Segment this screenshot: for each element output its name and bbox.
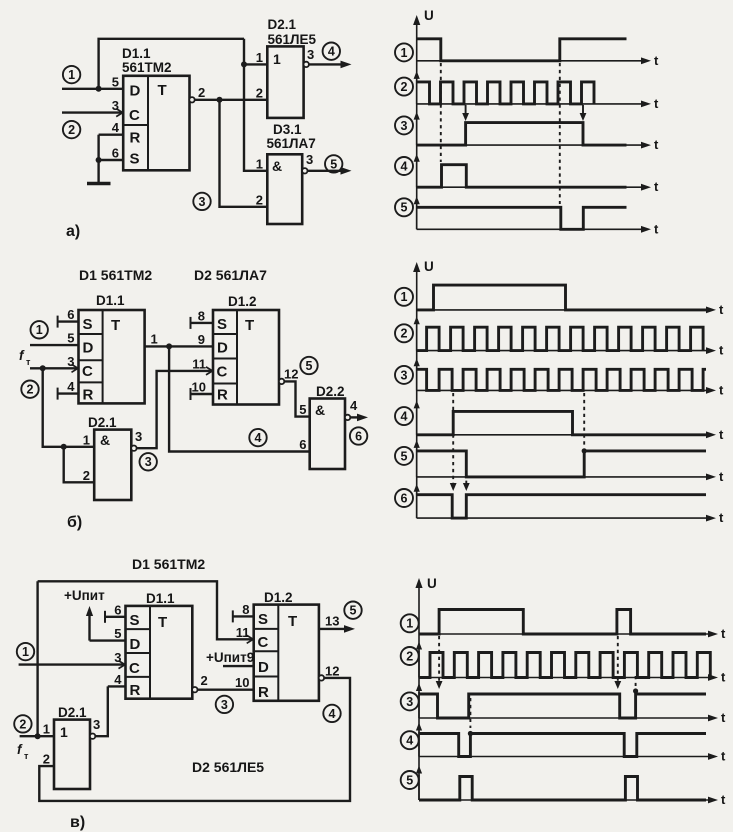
svg-text:561ЛЕ5: 561ЛЕ5	[268, 32, 317, 47]
timing a: mini axis arrow trace 5	[414, 196, 420, 229]
svg-text:t: t	[719, 302, 724, 317]
node 5 label (section v)	[344, 602, 361, 619]
svg-text:t: t	[721, 749, 726, 764]
svg-text:T: T	[158, 614, 167, 631]
svg-text:1: 1	[401, 46, 408, 60]
wire: R pin 4 stub with tick (section b)	[58, 388, 79, 400]
timing v: mini axis arrow trace 3	[416, 683, 422, 718]
timing b: dotted marker 2	[463, 453, 470, 491]
node 2 label (section v)	[14, 715, 31, 732]
svg-text:D1.1: D1.1	[96, 293, 125, 308]
svg-text:S: S	[130, 151, 140, 168]
timing b: waveform trace 5	[417, 451, 706, 477]
timing v: node 5 label	[401, 771, 419, 789]
svg-text:t: t	[721, 626, 726, 641]
svg-text:&: &	[315, 402, 325, 418]
svg-text:U: U	[424, 8, 434, 23]
timing a: t axis trace 4	[417, 179, 659, 194]
timing v: node 1 label	[401, 614, 419, 632]
pin 8 label (b D1.2)	[198, 308, 205, 323]
svg-text:U: U	[427, 576, 437, 591]
node 4 label (section b)	[249, 429, 266, 446]
svg-text:6: 6	[67, 307, 74, 322]
svg-text:1: 1	[406, 617, 413, 631]
label D2 561LE5 (section v)	[192, 759, 264, 775]
timing v: waveform trace 1 (input)	[419, 610, 706, 635]
svg-text:4: 4	[329, 707, 336, 721]
timing v: mini axis arrow trace 4	[416, 723, 422, 757]
pin 5 label (v D1.1)	[114, 626, 121, 641]
svg-text:4: 4	[406, 734, 413, 748]
node 2 label (section a)	[63, 121, 80, 138]
wire: net 1 top rail from D-input junction to gate inputs	[99, 39, 244, 89]
header label D1 561TM2 (section b)	[79, 267, 152, 283]
svg-text:R: R	[130, 130, 141, 147]
wire: D2.1 output up to D1.2 C pin 11 (section b)	[137, 367, 214, 448]
junction: top rail to D2.1 pin 1	[241, 61, 247, 67]
timing a: trigger arrow 2 onto trace 3	[580, 105, 587, 121]
svg-text:2: 2	[19, 717, 26, 731]
svg-text:t: t	[719, 343, 724, 358]
supply label +Upit (section v)	[64, 588, 105, 603]
timing b: mini axis arrow trace 6	[414, 484, 420, 518]
node 4 label (section v)	[323, 705, 340, 722]
svg-text:8: 8	[198, 308, 205, 323]
svg-text:5: 5	[350, 604, 357, 618]
timing a: waveform trace 5 (gate D3.1 out)	[417, 207, 627, 229]
node 1 label (section a)	[63, 66, 80, 83]
timing a: t axis trace 2	[417, 96, 659, 111]
svg-text:в): в)	[70, 814, 85, 831]
pin 1 label (b D1.1 output)	[151, 332, 158, 347]
pin 12 label (section v)	[325, 663, 339, 678]
svg-text:3: 3	[145, 455, 152, 469]
reference label D2.1 (section v)	[58, 705, 87, 720]
svg-text:D1.1: D1.1	[122, 46, 151, 61]
node 3 label (section v)	[216, 696, 233, 713]
svg-text:3: 3	[406, 695, 413, 709]
timing b: mini axis arrow trace 4	[414, 400, 420, 434]
svg-text:1: 1	[36, 323, 43, 337]
value label 561LA7	[267, 136, 316, 151]
ground	[87, 182, 111, 186]
svg-text:3: 3	[401, 119, 408, 133]
inversion circle: D3.1 output pin 3	[302, 168, 307, 173]
svg-text:4: 4	[401, 159, 408, 173]
svg-text:4: 4	[67, 379, 75, 394]
flip-flop D1.2 (section v) box	[254, 605, 319, 701]
svg-text:2: 2	[256, 85, 263, 100]
timing a: dashed edge marker 1	[440, 63, 442, 162]
svg-text:t: t	[654, 53, 659, 68]
pin 3 label (D3.1)	[306, 152, 313, 167]
svg-text:2: 2	[201, 673, 208, 688]
node 6 label (section b)	[350, 427, 367, 444]
svg-text:D: D	[130, 636, 141, 653]
svg-text:t: t	[719, 469, 724, 484]
wire: S pin 8 stub with tick (v D1.2)	[233, 610, 254, 622]
wire: S pin 6 stub with tick (section b)	[58, 316, 79, 328]
svg-text:5: 5	[299, 402, 306, 417]
timing b: waveform trace 3 (inverted clock)	[417, 369, 706, 390]
wire: S pin 6 stub	[99, 159, 124, 161]
wire: R-S tie down to ground	[97, 135, 99, 183]
svg-text:D2 561ЛЕ5: D2 561ЛЕ5	[192, 759, 264, 775]
header label D2 561LA7 (section b)	[194, 267, 267, 283]
timing v: waveform trace 4	[419, 734, 706, 757]
svg-text:C: C	[129, 660, 140, 677]
timing b: waveform trace 4	[417, 411, 706, 434]
timing a: node 1 label	[395, 43, 413, 61]
node 5 label (section a)	[325, 155, 342, 172]
pin 1 label (D3.1)	[256, 156, 263, 171]
pin 11 label (b D1.2)	[192, 356, 206, 371]
svg-text:D2.1: D2.1	[58, 705, 87, 720]
svg-text:4: 4	[112, 120, 120, 135]
supply +Upit arrow (section v)	[86, 606, 93, 641]
timing b: dotted marker 3	[583, 393, 585, 446]
timing a: dashed edge marker 2	[559, 63, 561, 204]
timing v: dotted marker 3	[469, 698, 471, 728]
pin 2 label (D2.1)	[256, 85, 263, 100]
gate D3.1 (561LA7) box	[267, 154, 302, 224]
timing a: t axis trace 1	[417, 53, 659, 68]
svg-text:5: 5	[114, 626, 121, 641]
wire: D pin 5 to supply (section v)	[90, 639, 126, 641]
pin 6 label	[112, 146, 119, 161]
svg-text:13: 13	[325, 613, 339, 628]
svg-text:1: 1	[83, 432, 90, 447]
svg-text:2: 2	[43, 752, 50, 767]
wire: vertical branch down to D3.1 pin 1	[244, 39, 267, 171]
inversion circle: D2.1 output pin 3 (section v)	[90, 734, 95, 739]
svg-text:3: 3	[306, 152, 313, 167]
pin 6 label (b D1.1)	[67, 307, 74, 322]
svg-text:C: C	[258, 634, 269, 651]
timing v: t axis trace 5	[419, 792, 726, 807]
svg-text:t: t	[719, 382, 724, 397]
svg-text:1: 1	[43, 722, 50, 737]
node 3 label (section a)	[193, 193, 210, 210]
pin 11 label (v D1.2)	[236, 625, 250, 640]
flip-flop D1.2 (section b) box	[213, 310, 279, 405]
timing a: mini axis arrow trace 3	[414, 112, 420, 146]
timing v: waveform trace 5	[419, 777, 706, 801]
svg-text:1: 1	[401, 290, 408, 304]
reference label D1.2 (section b)	[228, 294, 257, 309]
timing v: U axis	[415, 578, 422, 800]
svg-text:5: 5	[406, 773, 413, 787]
timing a: waveform trace 2 (clock)	[417, 82, 594, 104]
wire: input 1 to D pin 5 (section b)	[30, 344, 79, 346]
timing a: trigger arrow 1 onto trace 3	[462, 105, 469, 121]
timing b: node 6 label	[395, 489, 413, 507]
timing a: U axis	[413, 15, 420, 229]
inversion circle: D2.1 output (section b)	[131, 446, 136, 451]
pin 2 label (D3.1)	[256, 192, 263, 207]
timing b: t axis trace 2	[417, 343, 724, 358]
wire: input 1 to C pin 3 (section v)	[19, 661, 126, 669]
svg-text:12: 12	[325, 663, 339, 678]
pin 1 label (v D2.1)	[43, 722, 50, 737]
pin 3 label	[112, 98, 119, 113]
pin 3 label (D2.1)	[307, 47, 314, 62]
svg-text:3: 3	[221, 698, 228, 712]
timing a: node 4 label	[395, 157, 413, 175]
svg-text:D: D	[217, 340, 228, 357]
timing a: node 3 label	[395, 116, 413, 134]
label f clock input (section b)	[19, 348, 31, 367]
svg-text:t: t	[654, 179, 659, 194]
svg-text:3: 3	[67, 354, 74, 369]
svg-text:1: 1	[256, 156, 263, 171]
svg-text:t: t	[721, 792, 726, 807]
reference label D2.2 (section b)	[316, 384, 345, 399]
svg-text:R: R	[217, 387, 228, 404]
timing b: mini axis arrow trace 5	[414, 440, 420, 477]
pin 4 label (b D1.1)	[67, 379, 75, 394]
svg-text:S: S	[217, 316, 227, 333]
svg-text:1: 1	[60, 724, 68, 740]
svg-text:561ЛА7: 561ЛА7	[267, 136, 316, 151]
svg-text:t: t	[654, 96, 659, 111]
gate D2.1 (section v) box	[54, 720, 90, 789]
svg-text:2: 2	[68, 123, 75, 137]
pin 10 label (v D1.2)	[235, 675, 249, 690]
svg-text:t: t	[719, 510, 724, 525]
svg-text:T: T	[111, 317, 120, 334]
svg-text:2: 2	[401, 80, 408, 94]
reference label D2.1	[268, 17, 297, 32]
timing b: mini axis arrow trace 2	[414, 316, 420, 350]
reference label D1.1 (section v)	[146, 591, 175, 606]
wire: input 2 to C pin 3	[62, 109, 123, 117]
pin 13 label (section v)	[325, 613, 339, 628]
wire: R pin 4 from gate D2.1 output (section v)	[108, 685, 126, 687]
reference label D1.1 (section b)	[96, 293, 125, 308]
junction: f net (section b)	[40, 365, 46, 371]
junction: f net (section v)	[35, 733, 41, 739]
wire: tie to D2.1 pin 2 (section b)	[64, 447, 94, 483]
svg-text:D1.2: D1.2	[228, 294, 257, 309]
inversion circle: D1.2 output pin 12 (section v)	[319, 675, 324, 680]
svg-text:D: D	[258, 659, 269, 676]
section label v)	[70, 814, 85, 831]
svg-text:D1 561ТМ2: D1 561ТМ2	[132, 556, 205, 572]
inversion circle: D1.1 output pin 2	[189, 97, 194, 102]
value label 561TM2	[122, 60, 172, 75]
section label a)	[66, 223, 80, 240]
svg-text:10: 10	[192, 380, 206, 395]
svg-text:4: 4	[255, 431, 262, 445]
gate D2.2 (section b) box	[310, 399, 345, 470]
svg-text:D2.1: D2.1	[268, 17, 297, 32]
svg-text:1: 1	[273, 51, 281, 67]
gate D2.1 (section b) box	[94, 430, 131, 500]
svg-text:t: t	[719, 427, 724, 442]
inversion circle: D2.2 output pin 4 (section b)	[345, 415, 350, 420]
pin 3 label (b D1.1)	[67, 354, 74, 369]
svg-text:6: 6	[112, 146, 119, 161]
timing v: t axis trace 3	[419, 710, 726, 725]
wire: output net down to D3.1 pin 2	[220, 100, 268, 207]
pin 3 label (b D2.1)	[135, 429, 142, 444]
svg-text:10: 10	[235, 675, 249, 690]
svg-text:11: 11	[192, 356, 206, 371]
svg-text:D: D	[83, 340, 94, 357]
timing b: t axis trace 6	[417, 510, 724, 525]
wire: Q net down to D2.2 pin 6 (section b)	[169, 346, 310, 451]
junction: Q net (section b)	[166, 343, 172, 349]
node 4 label (section a)	[323, 43, 340, 60]
svg-text:3: 3	[93, 717, 100, 732]
svg-text:D: D	[130, 83, 141, 100]
pin 2 label (v D1.1 output)	[201, 673, 208, 688]
svg-text:т: т	[24, 751, 29, 761]
svg-text:5: 5	[401, 201, 408, 215]
wire: top rail f to D1.2 C pin 11 (section v)	[38, 581, 254, 643]
svg-text:D1 561ТМ2: D1 561ТМ2	[79, 267, 152, 283]
wire: R pin 10 stub with tick (b D1.2)	[191, 388, 214, 400]
svg-text:+Uпит9: +Uпит9	[206, 650, 254, 665]
svg-text:T: T	[158, 82, 167, 99]
reference label D3.1	[273, 122, 302, 137]
timing v: waveform trace 3	[419, 694, 706, 718]
timing a: waveform trace 3 (Q output)	[417, 123, 627, 146]
pin 4 label (b D2.2)	[350, 398, 358, 413]
svg-text:5: 5	[306, 359, 313, 373]
timing v: t axis trace 2	[419, 670, 726, 685]
svg-text:4: 4	[401, 410, 408, 424]
timing b: mini axis arrow trace 3	[414, 358, 420, 390]
svg-text:R: R	[258, 684, 269, 701]
svg-text:1: 1	[151, 332, 158, 347]
svg-text:2: 2	[83, 468, 90, 483]
wire: f input to D2.1 pin 1 (section v)	[20, 735, 54, 737]
svg-text:9: 9	[198, 332, 205, 347]
pin 3 label (v D2.1)	[93, 717, 100, 732]
timing b: node 5 label	[395, 447, 413, 465]
svg-text:S: S	[83, 316, 93, 333]
timing b: t axis trace 3	[417, 382, 724, 397]
svg-text:3: 3	[112, 98, 119, 113]
timing v: t axis trace 1	[419, 626, 726, 641]
svg-text:2: 2	[406, 649, 413, 663]
timing v: dashed edge marker 2	[614, 636, 621, 689]
reference label D1.2 (section v)	[264, 590, 293, 605]
timing b: t axis trace 4	[417, 427, 724, 442]
wire: D1.2 output pin 13 arrow (section v)	[319, 625, 355, 633]
timing v: dashed edge marker 1	[436, 636, 443, 689]
svg-text:D2.2: D2.2	[316, 384, 345, 399]
timing b: node 1 label	[395, 288, 413, 306]
pin 10 label (b D1.2)	[192, 380, 206, 395]
gate D2.1 (561LE5) box	[267, 46, 303, 118]
timing v: mini axis arrow trace 2	[416, 642, 422, 678]
pin 6 label (v D1.1)	[114, 602, 121, 617]
timing b: junction dot on trace 5 rise	[582, 448, 587, 453]
svg-text:т: т	[26, 357, 31, 367]
timing b: waveform trace 2 (clock f)	[417, 327, 703, 350]
svg-text:&: &	[100, 432, 110, 448]
junction: input 1 / top rail	[96, 86, 102, 92]
wire: D2.1 output arrow	[309, 61, 352, 69]
svg-text:D1.1: D1.1	[146, 591, 175, 606]
wire: D3.1 output arrow	[308, 167, 352, 175]
junction: S pin on ground tie	[96, 157, 102, 163]
supply label +Upit9 (v D1.2 D input)	[206, 650, 254, 665]
svg-text:5: 5	[67, 331, 74, 346]
junction: output net	[217, 97, 223, 103]
timing v: waveform trace 2 (clock f)	[419, 653, 710, 678]
pin 8 label (v D1.2)	[242, 602, 249, 617]
timing v: junction dot on trace 4 rise	[468, 731, 473, 736]
value label 561LE5	[268, 32, 317, 47]
pin 1 label (b D2.1)	[83, 432, 90, 447]
svg-text:t: t	[654, 221, 659, 236]
svg-text:R: R	[83, 387, 94, 404]
svg-text:S: S	[130, 612, 140, 629]
pin 4 label	[112, 120, 120, 135]
svg-text:1: 1	[256, 50, 263, 65]
timing v: dotted marker 4	[633, 676, 638, 694]
svg-text:+Uпит: +Uпит	[64, 588, 105, 603]
timing b: U axis label	[424, 259, 434, 274]
wire: f input to C pin 3 (section b)	[30, 364, 79, 372]
svg-text:t: t	[721, 710, 726, 725]
wire: pin 12 to bottom rail (section v)	[39, 678, 350, 801]
svg-text:D2.1: D2.1	[88, 415, 117, 430]
node 2 label (section b)	[21, 381, 38, 398]
timing a: mini axis arrow trace 4	[414, 154, 420, 188]
timing a: mini axis arrow trace 2	[414, 71, 420, 104]
svg-text:2: 2	[256, 192, 263, 207]
timing a: waveform trace 1 (input D)	[417, 39, 627, 61]
pin 5 label (b D2.2)	[299, 402, 306, 417]
timing v: node 2 label	[401, 647, 419, 665]
timing v: mini axis arrow trace 5	[416, 766, 422, 801]
timing b: node 4 label	[395, 407, 413, 425]
svg-text:а): а)	[66, 223, 80, 240]
svg-text:5: 5	[401, 449, 408, 463]
wire: R pin 4 stub	[99, 133, 124, 135]
svg-text:3: 3	[401, 368, 408, 382]
svg-text:T: T	[245, 317, 254, 334]
pin 2 label (b D2.1)	[83, 468, 90, 483]
svg-text:t: t	[721, 670, 726, 685]
junction: gate D2.1 input tie (section b)	[61, 444, 67, 450]
wire: D1.2 output to D2.2 pin 5 (section b)	[284, 381, 310, 416]
header label D1 561TM2 (section v)	[132, 556, 205, 572]
svg-text:5: 5	[112, 74, 119, 89]
svg-text:8: 8	[242, 602, 249, 617]
timing a: U axis label	[424, 8, 434, 23]
timing b: waveform trace 6	[417, 495, 706, 518]
svg-text:C: C	[217, 364, 228, 381]
timing a: waveform trace 4 (gate D2.1 out)	[417, 165, 627, 188]
wire: f net tall vertical (section v)	[36, 581, 38, 736]
wire: D2.1 pin 1 input	[244, 63, 267, 65]
svg-text:2: 2	[198, 85, 205, 100]
svg-text:S: S	[258, 611, 268, 628]
svg-text:б): б)	[67, 514, 82, 531]
wire: D2.1 output vertical to R (section v)	[95, 686, 108, 736]
node 5 label (section b)	[300, 357, 317, 374]
node 1 label (section b)	[31, 321, 48, 338]
timing b: t axis trace 5	[417, 469, 724, 484]
svg-text:&: &	[272, 158, 282, 174]
timing v: node 3 label	[401, 692, 419, 710]
